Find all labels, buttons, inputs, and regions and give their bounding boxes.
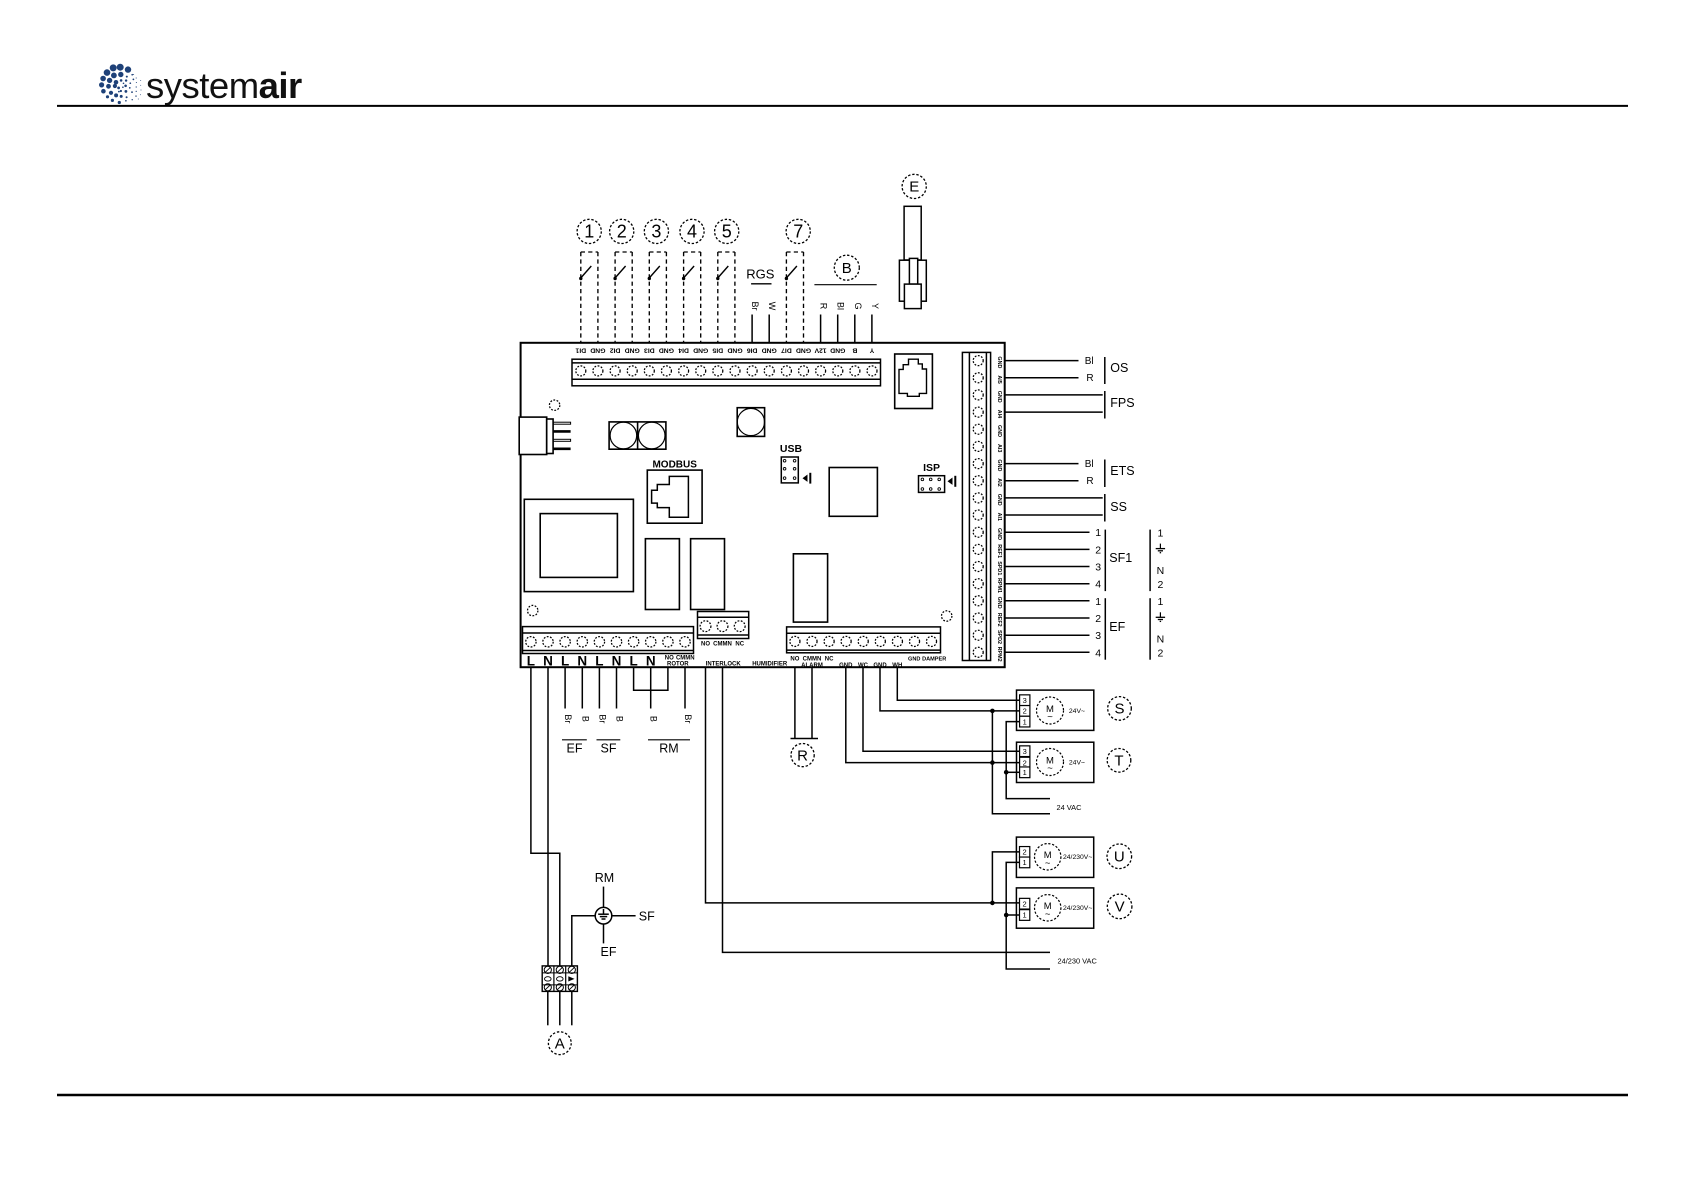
FPS bracket (1104, 391, 1106, 419)
svg-text:DAMPER: DAMPER (922, 656, 946, 662)
wire GND to S pin2 (880, 667, 1020, 711)
USB pin1 marker (803, 475, 808, 482)
svg-text:EF: EF (567, 742, 583, 756)
svg-text:A: A (555, 1035, 565, 1052)
svg-text:3: 3 (1023, 696, 1027, 705)
svg-text:RPM1: RPM1 (996, 578, 1002, 593)
terminal strip X-right (AI / fan outputs) (962, 352, 990, 660)
mains wire L (531, 667, 560, 966)
svg-text:24V~: 24V~ (1069, 759, 1085, 766)
svg-text:L: L (561, 654, 569, 669)
svg-text:DI7: DI7 (781, 346, 792, 353)
earth wire to terminal block (572, 916, 595, 966)
svg-text:R: R (797, 747, 808, 764)
svg-text:DI4: DI4 (678, 346, 689, 353)
circled letter U (1107, 844, 1132, 869)
svg-text:INTERLOCK: INTERLOCK (706, 662, 742, 668)
svg-text:Br: Br (683, 714, 693, 723)
T pin1 tap (1006, 771, 1019, 773)
svg-text:2: 2 (1023, 758, 1027, 767)
svg-text:1: 1 (1023, 911, 1027, 920)
svg-text:SS: SS (1110, 500, 1127, 514)
top horizontal rule (57, 105, 1628, 107)
RM earth lead (603, 887, 605, 908)
svg-text:DI3: DI3 (644, 346, 655, 353)
mains terminal labels L N (527, 654, 656, 669)
svg-text:N: N (1157, 565, 1165, 577)
wire WC to T pin3 (863, 667, 1020, 751)
svg-text:RM: RM (659, 742, 678, 756)
svg-text:L: L (629, 654, 637, 669)
power inlet connector J1 (519, 417, 547, 454)
svg-text:GND: GND (830, 346, 845, 353)
svg-text:SF: SF (601, 742, 617, 756)
svg-text:3: 3 (1095, 630, 1101, 642)
alarm wire CMMN (811, 667, 813, 738)
svg-text:24/230V~: 24/230V~ (1063, 905, 1092, 912)
svg-text:NO: NO (790, 656, 799, 662)
svg-text:1: 1 (1095, 527, 1101, 539)
svg-text:GND: GND (590, 346, 605, 353)
transformer TR1 (524, 499, 633, 591)
damper actuator V (1016, 888, 1093, 928)
circled number 3 (644, 219, 668, 243)
svg-text:2: 2 (1023, 899, 1027, 908)
svg-text:SPD1: SPD1 (996, 561, 1002, 575)
svg-text:ISP: ISP (923, 462, 940, 474)
svg-text:HUMIDIFIER: HUMIDIFIER (752, 662, 788, 668)
svg-text:3: 3 (651, 222, 661, 242)
svg-text:ROTOR: ROTOR (667, 661, 689, 667)
svg-text:B: B (842, 260, 852, 277)
svg-text:SF: SF (639, 910, 655, 924)
svg-text:RPM2: RPM2 (996, 647, 1002, 662)
svg-text:B: B (615, 716, 625, 722)
SF label (597, 739, 621, 741)
right terminal pin labels (rotated 90) (996, 356, 1002, 661)
svg-text:AI5: AI5 (996, 375, 1002, 383)
svg-text:DI2: DI2 (610, 346, 621, 353)
svg-text:24/230 VAC: 24/230 VAC (1058, 957, 1098, 966)
svg-text:R: R (1086, 476, 1093, 487)
svg-text:V: V (1115, 899, 1125, 916)
svg-text:systemair: systemair (146, 65, 302, 106)
mounting hole top-left (549, 400, 559, 410)
EF bracket (1104, 598, 1106, 660)
EF plug pins column (1149, 598, 1151, 660)
svg-text:R: R (1086, 373, 1093, 384)
svg-text:GND: GND (996, 459, 1002, 471)
OS sensor wires (1005, 360, 1079, 362)
svg-text:1: 1 (1023, 717, 1027, 726)
circled number 7 (786, 219, 810, 243)
switch circuit 1 (dashed) (579, 252, 598, 343)
svg-text:N: N (577, 654, 587, 669)
svg-text:3: 3 (1023, 747, 1027, 756)
control board outline (521, 343, 1005, 667)
svg-text:SPD2: SPD2 (996, 630, 1002, 644)
FPS wires (1005, 394, 1103, 396)
RM wires (650, 667, 652, 708)
svg-text:2: 2 (1023, 848, 1027, 857)
terminal strip interlock (698, 612, 749, 639)
svg-text:GND: GND (996, 494, 1002, 506)
svg-text:DI1: DI1 (575, 346, 586, 353)
circled letter T (1107, 749, 1131, 773)
svg-text:4: 4 (1095, 579, 1101, 591)
svg-text:N: N (1157, 634, 1165, 646)
svg-text:USB: USB (780, 443, 803, 455)
svg-text:N: N (543, 654, 553, 669)
svg-text:B: B (649, 716, 659, 722)
alarm contact bar (791, 738, 819, 740)
earth symbol (595, 907, 612, 924)
ISP pin header (919, 476, 945, 493)
IC U2 (829, 468, 877, 517)
svg-text:GND: GND (996, 391, 1002, 403)
svg-text:RGS: RGS (746, 267, 775, 282)
svg-text:24/230V~: 24/230V~ (1063, 854, 1092, 861)
svg-text:~: ~ (1045, 858, 1051, 869)
circled letter E (902, 174, 926, 198)
SF earth lead (612, 915, 636, 917)
damper actuator U (1016, 837, 1093, 877)
bottom horizontal rule (57, 1094, 1628, 1096)
svg-text:2: 2 (1095, 613, 1101, 625)
svg-text:1: 1 (584, 222, 594, 242)
switch circuit 5 (dashed) (716, 252, 735, 343)
circled number 5 (715, 219, 739, 243)
svg-text:DI6: DI6 (747, 346, 758, 353)
svg-text:GND: GND (996, 597, 1002, 609)
top terminal pin labels (rotated 180) (575, 346, 874, 353)
svg-text:SF1: SF1 (1109, 551, 1132, 565)
OS bracket (1104, 357, 1106, 384)
relay K4 (691, 539, 725, 610)
24VAC feed bus (pin1) (1006, 722, 1050, 799)
svg-text:2: 2 (1023, 707, 1027, 716)
U/V pin1 bus (1006, 862, 1050, 969)
svg-text:1: 1 (1157, 528, 1163, 540)
SS wires (1005, 497, 1103, 499)
svg-text:Br: Br (750, 302, 760, 311)
svg-text:U: U (1114, 849, 1125, 866)
svg-text:3: 3 (1095, 562, 1101, 574)
svg-text:1: 1 (1023, 858, 1027, 867)
svg-text:GND: GND (996, 528, 1002, 540)
svg-text:Br: Br (597, 714, 607, 723)
svg-text:L: L (595, 654, 603, 669)
SF1 plug pins column (1149, 530, 1151, 592)
svg-text:24V~: 24V~ (1069, 708, 1085, 715)
svg-text:NO: NO (701, 641, 710, 647)
SF1 wires 1-4 (1005, 531, 1090, 533)
svg-text:GND: GND (796, 346, 811, 353)
svg-text:L: L (527, 654, 535, 669)
svg-text:Bl: Bl (836, 302, 846, 310)
svg-text:2: 2 (1095, 544, 1101, 556)
svg-text:GND: GND (762, 346, 777, 353)
damper actuator S (1017, 690, 1094, 730)
svg-text:Y: Y (869, 346, 874, 353)
circled number 2 (610, 219, 634, 243)
switch circuit 3 (dashed) (648, 252, 667, 343)
relay K3 (645, 539, 679, 610)
svg-text:ETS: ETS (1110, 464, 1134, 478)
EF wires 1-4 (1005, 600, 1090, 602)
svg-text:2: 2 (1157, 579, 1163, 591)
svg-text:Bl: Bl (1085, 356, 1094, 367)
ISP pin1 marker (948, 478, 953, 485)
svg-text:GND: GND (908, 656, 920, 662)
MODBUS RJ jack (647, 470, 702, 523)
svg-text:RM: RM (595, 871, 614, 885)
relay K1/K2 (two circles in squares) (609, 422, 666, 449)
svg-text:Y: Y (870, 303, 880, 309)
U/V pin2 feed riser (992, 852, 1019, 903)
block tails (547, 991, 549, 1025)
svg-text:1: 1 (1157, 596, 1163, 608)
svg-text:NC: NC (825, 656, 834, 662)
svg-text:GND: GND (625, 346, 640, 353)
svg-text:EF: EF (1109, 620, 1125, 634)
USB pin header (781, 457, 798, 483)
terminal strip X-mains (L/N + rotor) (523, 627, 694, 654)
svg-text:GND: GND (996, 425, 1002, 437)
svg-text:E: E (909, 179, 919, 196)
mounting hole bottom-right (942, 611, 952, 621)
svg-text:4: 4 (687, 222, 697, 242)
svg-text:FPS: FPS (1110, 396, 1134, 410)
interlock wire NO (706, 667, 1020, 903)
svg-text:NC: NC (735, 641, 744, 647)
svg-text:2: 2 (1157, 648, 1163, 660)
wire GND to T pin2 (846, 667, 1020, 762)
terminal strip alarm/damper (787, 627, 941, 653)
svg-text:1: 1 (1095, 596, 1101, 608)
svg-text:W: W (767, 302, 777, 311)
3-pole terminal block (542, 966, 577, 992)
svg-text:AI3: AI3 (996, 444, 1002, 452)
alarm wire NO (794, 667, 796, 738)
external connector socket (E port) (895, 354, 933, 409)
svg-text:Br: Br (563, 714, 573, 723)
svg-text:NO: NO (665, 655, 674, 661)
circled letter R (791, 744, 814, 767)
svg-text:GND: GND (693, 346, 708, 353)
EF supply wires (564, 667, 566, 708)
EF label (562, 739, 587, 741)
switch circuit 7 (dashed) (785, 252, 804, 343)
svg-text:S: S (1114, 701, 1124, 718)
svg-text:AI2: AI2 (996, 478, 1002, 486)
svg-text:MODBUS: MODBUS (652, 460, 697, 471)
svg-text:~: ~ (1045, 909, 1051, 920)
circled letter B (834, 255, 859, 280)
switch circuit 2 (dashed) (613, 252, 632, 343)
terminal strip X-top (DI inputs) (572, 359, 881, 386)
svg-text:G: G (853, 302, 863, 309)
svg-text:Bl: Bl (1085, 459, 1094, 470)
svg-text:AI4: AI4 (996, 410, 1002, 418)
svg-text:7: 7 (793, 222, 803, 242)
svg-text:EF: EF (601, 945, 617, 959)
wire WH to S pin3 (897, 667, 1019, 700)
SF1 bracket (1104, 530, 1106, 592)
circled number 4 (680, 219, 704, 243)
J1 pins (553, 422, 571, 424)
ETS bracket (1104, 460, 1106, 488)
svg-text:B: B (580, 716, 590, 722)
ETS wires (1005, 463, 1079, 465)
Systemair logo dot swirl (99, 64, 141, 104)
svg-text:T: T (1114, 753, 1123, 770)
svg-text:~: ~ (1047, 712, 1053, 723)
V pin1 tap (1006, 914, 1019, 916)
svg-text:DI5: DI5 (712, 346, 723, 353)
damper actuator T (1017, 742, 1094, 782)
svg-text:OS: OS (1110, 361, 1128, 375)
mounting hole bottom-left (528, 605, 538, 615)
svg-text:REF2: REF2 (996, 613, 1002, 627)
circled letter A (548, 1032, 571, 1055)
svg-text:5: 5 (722, 222, 732, 242)
svg-text:CMMN: CMMN (676, 655, 695, 661)
svg-text:REF1: REF1 (996, 544, 1002, 558)
switch circuit 4 (dashed) (682, 252, 701, 343)
RM label (648, 739, 690, 741)
E plug tip (904, 284, 921, 309)
circled letter V (1107, 894, 1132, 919)
relay K5 (humidifier) (793, 554, 827, 622)
svg-text:AI1: AI1 (996, 513, 1002, 521)
svg-text:GND: GND (996, 356, 1002, 368)
svg-text:1: 1 (1023, 768, 1027, 777)
circled number 1 (577, 219, 601, 243)
svg-text:2: 2 (617, 222, 627, 242)
SF supply wires (598, 667, 600, 708)
E plug inner (909, 258, 917, 284)
SS bracket (1104, 494, 1106, 522)
mains wire N (547, 667, 549, 966)
EF earth lead (603, 924, 605, 943)
svg-text:~: ~ (1047, 763, 1053, 774)
svg-text:24 VAC: 24 VAC (1057, 803, 1083, 812)
buzzer (737, 408, 764, 437)
svg-text:CMMN: CMMN (803, 656, 822, 662)
svg-text:N: N (646, 654, 656, 669)
interlock wire CMMN (723, 667, 1051, 952)
rotor jumper L-NO (634, 667, 668, 690)
svg-text:CMMN: CMMN (713, 641, 732, 647)
circled letter S (1108, 697, 1132, 721)
24VAC return bus (992, 711, 1050, 814)
E plug cable (904, 206, 921, 260)
E plug body (899, 260, 926, 301)
svg-text:12V: 12V (814, 346, 827, 353)
svg-text:GND: GND (659, 346, 674, 353)
svg-text:R: R (819, 303, 829, 310)
svg-text:N: N (612, 654, 622, 669)
svg-text:4: 4 (1095, 647, 1101, 659)
svg-text:B: B (852, 346, 857, 353)
svg-text:GND: GND (727, 346, 742, 353)
